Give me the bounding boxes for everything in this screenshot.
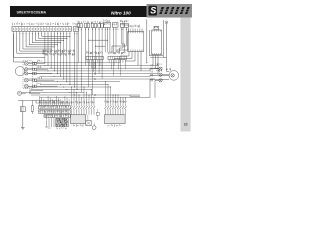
lamp turn FR	[24, 78, 28, 82]
connector X1 pins	[14, 31, 70, 33]
svg-text:ЭЛЕКТРОСХЕМА: ЭЛЕКТРОСХЕМА	[17, 10, 47, 14]
CDI unit box	[128, 26, 131, 27]
key symbol	[165, 21, 168, 24]
wire between boxes	[146, 20, 148, 63]
rectifier block	[96, 21, 99, 22]
label band C6	[107, 52, 109, 54]
title bar	[10, 6, 147, 17]
link wire A	[89, 39, 108, 41]
right pack label band	[103, 100, 106, 103]
wires below magneto	[150, 55, 164, 75]
connector X3 row1	[39, 105, 71, 109]
right handlebar switch box	[105, 115, 126, 124]
rear connector ticks	[151, 64, 152, 81]
tail light housing	[169, 71, 179, 81]
junction dots row	[19, 32, 77, 35]
link wire B	[96, 45, 106, 47]
rear lamp labels	[156, 63, 159, 65]
pilot lamp	[92, 126, 96, 130]
fuse box	[112, 23, 118, 28]
connector C5	[86, 56, 103, 59]
lamp labels	[36, 61, 39, 62]
lamp turn FL	[24, 62, 28, 66]
small box center	[96, 112, 99, 115]
svg-text:23: 23	[184, 123, 188, 127]
headlight bulbs	[25, 68, 28, 71]
wires below X4	[45, 117, 54, 128]
legend table	[56, 118, 69, 126]
rear turn lamp R1	[159, 67, 162, 70]
turn relay block	[76, 21, 79, 22]
horn	[17, 91, 21, 95]
position lamp	[24, 84, 28, 88]
label band above X3	[38, 101, 41, 103]
wire right of magneto	[164, 20, 167, 57]
label above X2	[72, 23, 75, 26]
harness horizontal wires	[18, 63, 159, 101]
connector X4 row3	[44, 114, 70, 117]
wire color label band	[42, 51, 45, 53]
rear position lamp	[159, 79, 162, 82]
mesh bundle columns	[45, 33, 77, 89]
magneto unit box	[152, 30, 162, 55]
label band above connector X1	[11, 24, 14, 26]
flasher unit	[119, 20, 121, 23]
main fuse	[31, 106, 33, 112]
svg-text:S: S	[150, 6, 156, 16]
starter relay	[86, 121, 91, 126]
mid component drop wires	[78, 27, 128, 95]
headlight housing	[15, 67, 24, 76]
left switch pack wires	[71, 87, 96, 115]
label band C5	[85, 52, 88, 53]
connector X3 row2	[39, 110, 71, 113]
staircase into right connector	[112, 44, 128, 52]
logo emblem S	[148, 6, 157, 16]
bottom bus wires	[36, 95, 140, 103]
speed sensor circles	[29, 90, 31, 92]
ground symbol	[21, 127, 25, 129]
pin dots under components	[78, 28, 127, 31]
horn relay block	[83, 22, 86, 23]
wire right bus	[166, 24, 168, 69]
connector X1 housing	[12, 27, 72, 32]
starter relay block	[90, 22, 93, 24]
magneto label box	[154, 26, 159, 29]
pins below C5 C6	[87, 60, 125, 76]
left handlebar switch box	[71, 115, 86, 124]
rear wires	[155, 64, 159, 66]
battery GB1	[20, 107, 25, 112]
wire left of magneto	[149, 30, 163, 56]
page number strip	[180, 18, 190, 132]
logo word STELS	[158, 7, 191, 14]
rear turn lamp R2	[159, 73, 162, 76]
svg-text:Nitro 100: Nitro 100	[111, 10, 131, 15]
dashed enclosure front lamps	[23, 61, 33, 89]
connector X2 (2-pin)	[73, 27, 78, 32]
wire drops from X1 staircase	[14, 33, 71, 62]
left pack label band	[70, 102, 73, 104]
connector C6	[108, 56, 126, 59]
wires below CDI	[114, 51, 141, 71]
right switch pack wires	[105, 81, 127, 115]
wires into X3	[40, 96, 69, 105]
inline connector ticks mid	[94, 62, 95, 96]
ignition switch	[103, 20, 106, 23]
plug FL	[33, 62, 35, 64]
battery ground lead	[22, 112, 24, 128]
legend footer marks	[55, 128, 58, 129]
logo bar	[147, 4, 193, 18]
junction dots mesh	[44, 62, 77, 95]
